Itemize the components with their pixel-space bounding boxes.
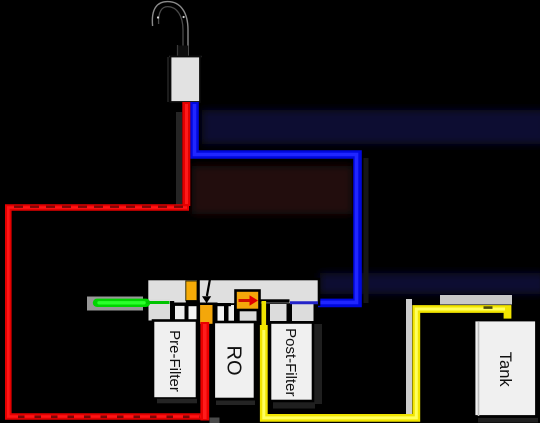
jpeg glow band mid right	[320, 273, 540, 294]
yellow shadow left of riser	[406, 299, 412, 415]
post-filter shadow right	[313, 324, 322, 404]
blue stub inside manifold	[290, 301, 318, 304]
port divider	[185, 303, 189, 321]
port tab F	[239, 305, 257, 321]
valve V1 (feed valve)	[186, 281, 197, 301]
black line under green feed	[170, 303, 187, 306]
valve V2 orange core	[200, 305, 212, 324]
ASO lower connector	[237, 310, 240, 322]
green feed shadow block	[87, 297, 143, 311]
port tab E	[229, 305, 235, 321]
svg-text:RO: RO	[223, 346, 245, 376]
ASO red arrow	[239, 299, 251, 302]
yellow tank line	[261, 301, 266, 327]
manifold body	[147, 279, 319, 305]
valve V2 black housing	[197, 303, 218, 323]
storage tank	[474, 320, 537, 417]
post-filter shadow bottom	[273, 402, 315, 409]
svg-text:Tank: Tank	[496, 352, 514, 388]
port divider left of feed	[170, 301, 174, 321]
black line over valve row	[186, 303, 231, 306]
flow arrow	[207, 280, 210, 297]
red supply loop	[8, 208, 206, 417]
pre-filter shadow bottom	[157, 399, 197, 404]
port tab A (feed)	[149, 299, 171, 321]
svg-text:Post-Filter: Post-Filter	[282, 328, 299, 396]
green feed tube	[97, 299, 146, 307]
dark dash on yellow top run	[484, 306, 493, 309]
port tab H	[292, 304, 314, 321]
jpeg maroon patch under blue horizontal	[192, 166, 352, 214]
faucet body	[167, 57, 169, 102]
svg-text:Pre-Filter: Pre-Filter	[166, 330, 183, 392]
port tab B	[175, 305, 185, 321]
RO shadow bottom	[216, 401, 255, 406]
red tube: faucet down	[182, 102, 190, 206]
faucet spout outer edge	[152, 2, 188, 56]
thick red tube to RO port	[200, 322, 209, 421]
shadow right of blue vertical	[364, 158, 369, 303]
shadow left of faucet red tube	[176, 112, 182, 205]
faucet spout inner edge	[159, 7, 183, 56]
RO housing	[214, 322, 255, 399]
port tab D	[218, 305, 225, 321]
blue tube: faucet to manifold	[195, 102, 358, 303]
port tab G	[270, 304, 287, 321]
port divider	[224, 303, 228, 321]
port divider	[214, 303, 218, 321]
port tab C	[189, 305, 198, 321]
manifold right lower edge	[314, 307, 318, 322]
post-filter housing	[270, 323, 313, 402]
black link ASO to blue	[260, 299, 290, 302]
port divider	[234, 303, 239, 321]
pre-filter housing	[153, 321, 197, 399]
yellow shadow above top run	[440, 295, 512, 305]
jpeg glow band upper	[202, 110, 540, 144]
tank shadow bottom	[478, 418, 538, 423]
auto shut-off valve housing	[236, 291, 260, 311]
port stubs flanking yellow	[257, 316, 261, 325]
faucet spout glints	[157, 16, 159, 18]
faucet neck	[177, 46, 188, 57]
